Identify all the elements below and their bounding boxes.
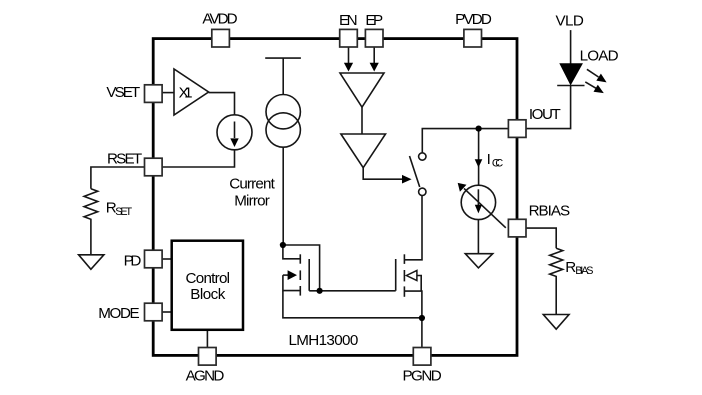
svg-text:RBIAS: RBIAS — [529, 202, 571, 219]
svg-text:AVDD: AVDD — [202, 11, 237, 28]
svg-text:Mirror: Mirror — [234, 193, 270, 210]
svg-text:RSET: RSET — [107, 151, 142, 168]
svg-text:PD: PD — [124, 252, 142, 269]
svg-text:CC: CC — [492, 157, 503, 169]
svg-text:VSET: VSET — [106, 84, 140, 101]
svg-text:X1: X1 — [179, 85, 193, 102]
svg-text:BIAS: BIAS — [575, 265, 593, 277]
svg-text:PGND: PGND — [402, 367, 441, 384]
svg-text:EN: EN — [339, 12, 358, 29]
svg-text:LOAD: LOAD — [580, 47, 619, 64]
svg-text:Block: Block — [190, 286, 225, 303]
svg-text:SET: SET — [115, 206, 132, 218]
svg-text:PVDD: PVDD — [455, 11, 492, 28]
svg-text:VLD: VLD — [556, 13, 584, 30]
svg-text:Current: Current — [229, 176, 275, 193]
svg-text:EP: EP — [365, 12, 383, 29]
svg-text:AGND: AGND — [186, 367, 225, 384]
svg-text:MODE: MODE — [98, 305, 140, 322]
svg-text:I: I — [487, 151, 491, 168]
svg-text:IOUT: IOUT — [529, 106, 561, 123]
svg-text:Control: Control — [186, 270, 231, 287]
svg-text:LMH13000: LMH13000 — [289, 332, 359, 349]
